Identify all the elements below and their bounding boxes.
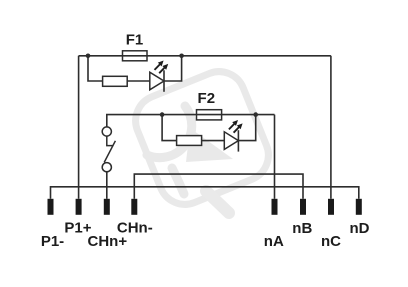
watermark logo bbox=[128, 64, 276, 213]
LED D2 bbox=[224, 120, 242, 152]
wire F2 top (input dot to nA corner) bbox=[162, 114, 274, 116]
svg-text:P1-: P1- bbox=[41, 233, 64, 250]
wire F1 top (P1+ corner to right corner) bbox=[79, 55, 331, 57]
terminal nA bbox=[272, 199, 278, 215]
fuse F1 bbox=[123, 51, 148, 61]
terminal CHn- bbox=[131, 199, 137, 215]
terminal CHn+ bbox=[104, 199, 110, 215]
svg-text:nB: nB bbox=[292, 220, 312, 237]
terminal nB bbox=[300, 199, 306, 215]
wire switch drop to CHn+ bbox=[106, 172, 108, 199]
terminal nC bbox=[328, 199, 334, 215]
node F1 output junction bbox=[179, 54, 184, 59]
wire F2 LED branch bbox=[162, 115, 256, 141]
terminal nD bbox=[356, 199, 362, 215]
wire switch to F2 input bbox=[107, 115, 162, 127]
wire bus P1- to nD bbox=[51, 187, 359, 199]
wire bus CHn- to nB bbox=[134, 174, 303, 199]
terminal P1- bbox=[48, 199, 54, 215]
svg-text:CHn+: CHn+ bbox=[88, 233, 128, 250]
svg-text:nC: nC bbox=[321, 233, 341, 250]
LED D1 bbox=[150, 61, 168, 92]
terminal P1+ bbox=[76, 199, 82, 215]
node F1 input junction bbox=[86, 54, 91, 59]
node F2 output junction bbox=[253, 112, 258, 117]
resistor R2 bbox=[177, 136, 202, 146]
switch S1 bbox=[102, 127, 115, 172]
wire P1+ riser to F1 input bbox=[78, 56, 80, 199]
wire F2 output drop to nA bbox=[274, 115, 276, 199]
fuse F2 bbox=[197, 110, 222, 120]
wire F1 LED branch bbox=[88, 56, 182, 81]
wire F1 output drop to nC bbox=[330, 56, 332, 199]
svg-text:F2: F2 bbox=[198, 90, 216, 107]
svg-text:nD: nD bbox=[350, 220, 370, 237]
svg-text:nA: nA bbox=[264, 233, 284, 250]
resistor R1 bbox=[103, 76, 128, 86]
node F2 input junction bbox=[160, 112, 165, 117]
svg-text:F1: F1 bbox=[126, 32, 144, 49]
